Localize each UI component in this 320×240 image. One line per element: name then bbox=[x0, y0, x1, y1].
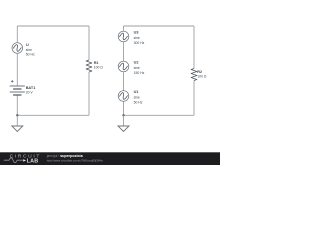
wire: left branch above source U bbox=[16, 26, 18, 43]
svg-text:sine: sine bbox=[134, 95, 140, 99]
svg-text:sine: sine bbox=[26, 48, 32, 52]
wire: right ground stem bbox=[123, 115, 125, 126]
resistor R2 bbox=[191, 69, 197, 81]
svg-text:U: U bbox=[26, 43, 29, 47]
source U1 bbox=[118, 91, 129, 102]
wire: R1 branch top lead bbox=[88, 26, 90, 60]
node: right bottom junction bbox=[122, 114, 124, 116]
source U2 bbox=[118, 61, 129, 72]
source U (left sine source) bbox=[12, 43, 23, 54]
svg-text:sine: sine bbox=[134, 66, 140, 70]
svg-text:100 Ω: 100 Ω bbox=[94, 66, 104, 70]
watermark bar bbox=[0, 152, 220, 165]
svg-text:http://www.circuitlab.com/c/7f: http://www.circuitlab.com/c/7fk5mzg59j36… bbox=[47, 158, 103, 162]
svg-text:BAT1: BAT1 bbox=[26, 86, 36, 90]
svg-text:U2: U2 bbox=[134, 61, 139, 65]
svg-text:U3: U3 bbox=[134, 31, 139, 35]
wire: between source U2 and source U1 bbox=[123, 72, 125, 91]
wire: left branch battery BAT1 to bottom junction bbox=[16, 95, 18, 115]
wire: below source U1 to junction bbox=[123, 101, 125, 115]
logo sine glyph bbox=[4, 158, 23, 163]
svg-text:20 V: 20 V bbox=[26, 91, 34, 95]
battery BAT1 bbox=[10, 80, 25, 95]
resistor R1 bbox=[86, 60, 92, 72]
wire: right loop top bbox=[124, 25, 195, 27]
ground (left) bbox=[12, 126, 23, 132]
wire: R2 branch bottom lead bbox=[193, 81, 195, 116]
wire: R1 branch bottom lead bbox=[88, 72, 90, 115]
svg-text:LAB: LAB bbox=[27, 158, 39, 164]
svg-text:300 Hz: 300 Hz bbox=[134, 41, 145, 45]
ground (right) bbox=[118, 126, 129, 132]
node: left bottom junction bbox=[16, 114, 18, 116]
wire: left loop bottom bbox=[17, 114, 89, 116]
wire: left branch source U to battery BAT1 bbox=[16, 53, 18, 86]
svg-text:100 Ω: 100 Ω bbox=[197, 75, 207, 79]
wire: left ground stem bbox=[16, 115, 18, 126]
svg-text:R1: R1 bbox=[94, 61, 99, 65]
svg-text:U1: U1 bbox=[134, 90, 139, 94]
logo arrow marker bbox=[23, 159, 26, 161]
svg-text:150 Hz: 150 Hz bbox=[134, 71, 145, 75]
svg-text:50 Hz: 50 Hz bbox=[134, 100, 143, 104]
wire: right branch above source U3 bbox=[123, 26, 125, 31]
source U3 bbox=[118, 31, 129, 42]
wire: between source U3 and source U2 bbox=[123, 42, 125, 61]
wire: R2 branch top lead bbox=[193, 26, 195, 69]
svg-text:50 Hz: 50 Hz bbox=[26, 53, 35, 57]
svg-text:sine: sine bbox=[134, 36, 140, 40]
wire: left loop top bbox=[17, 25, 89, 27]
svg-text:R2: R2 bbox=[197, 70, 202, 74]
wire: right loop bottom bbox=[124, 114, 195, 116]
